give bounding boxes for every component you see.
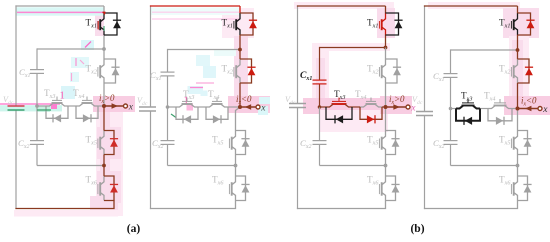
capacitor C42	[433, 138, 458, 150]
transistor T15 (IGBT with antiparallel diode)	[86, 131, 119, 155]
node inner-bottom junction	[384, 164, 388, 168]
wire junction-T6	[385, 166, 387, 177]
wire left rail lower	[424, 116, 426, 210]
wire output arrow	[518, 108, 539, 110]
wire left rail lower	[297, 108, 299, 210]
highlight glow	[509, 36, 529, 106]
highlight band	[51, 104, 57, 109]
wire node-T5	[385, 107, 387, 131]
highlight band	[201, 91, 208, 97]
arrowhead (current out of node)	[393, 104, 400, 110]
highlight glow	[97, 127, 121, 159]
highlight band	[196, 55, 210, 66]
wire T3 to T4	[480, 108, 488, 110]
highlight band	[258, 106, 268, 115]
highlight glow	[95, 13, 104, 36]
wire output arrow	[386, 106, 407, 108]
highlight glow	[316, 58, 325, 108]
capacitor C21	[150, 70, 175, 82]
highlight glow	[504, 96, 550, 115]
wire midpoint to T3	[37, 105, 46, 107]
node inner-top junction	[516, 48, 520, 52]
wire T3 to T4	[352, 106, 360, 108]
highlight glow	[222, 8, 254, 38]
highlight glow	[100, 112, 110, 208]
wire T1-junction	[239, 35, 241, 50]
highlight glow	[512, 40, 523, 106]
arrowhead (current into node)	[245, 104, 252, 110]
accent line	[103, 26, 105, 31]
wire T4 to output node	[382, 106, 386, 108]
transistor T26 (IGBT with antiparallel diode)	[212, 175, 250, 201]
wire T3 to T4	[68, 105, 76, 107]
highlight line	[190, 87, 203, 89]
wire T3 to T4	[198, 106, 206, 108]
highlight band	[17, 7, 105, 15]
wire T5-junction	[385, 155, 387, 166]
node inner-top junction	[238, 48, 242, 52]
wire T1-junction	[385, 35, 387, 48]
highlight band	[259, 97, 270, 104]
wire inner bottom	[168, 165, 236, 167]
node output x (circuit 4)	[516, 107, 520, 111]
terminal x (open circle)	[256, 105, 260, 109]
svg-text:x: x	[260, 103, 266, 113]
wire node-T5	[517, 109, 519, 131]
highlight line	[75, 58, 77, 66]
highlight glow	[228, 96, 270, 113]
transistor T42 (IGBT with antiparallel diode)	[499, 59, 533, 83]
wire inner-left lower	[450, 109, 452, 141]
wire bottom bus	[15, 201, 114, 209]
highlight line	[171, 114, 176, 118]
wire junction-T6	[235, 166, 237, 177]
wire inner-left lower	[167, 107, 169, 141]
wire midpoint to T3	[320, 106, 327, 108]
transistor T45 (IGBT with antiparallel diode)	[499, 131, 532, 155]
wire junction-T2	[517, 50, 519, 59]
wire left rail upper	[424, 5, 426, 111]
highlight band	[187, 104, 194, 111]
transistor T22 (IGBT with antiparallel diode)	[222, 59, 256, 83]
highlight line	[0, 103, 60, 105]
transistor T23 (bidirectional-switch IGBT with diode)	[176, 89, 198, 123]
DC source Vdc1 (split capacitor plates)	[3, 95, 25, 110]
svg-text:x: x	[128, 102, 134, 112]
transistor T12 (IGBT with antiparallel diode)	[86, 59, 120, 83]
highlight band	[214, 50, 236, 56]
highlight line	[85, 42, 91, 48]
terminal x (open circle)	[538, 107, 542, 111]
wire left rail lower	[15, 110, 17, 209]
wire top bus	[297, 5, 386, 7]
wire column top	[239, 6, 241, 13]
transistor T34 (bidirectional-switch IGBT with diode)	[355, 89, 382, 123]
wire inner-left lower	[36, 106, 38, 141]
wire T2-node	[385, 83, 387, 107]
wire junction-T2	[103, 49, 105, 59]
wire inner-left upper (flying cap branch)	[167, 49, 169, 72]
node flying-cap midpoint	[318, 105, 322, 109]
terminal x (open circle)	[124, 104, 128, 108]
transistor T35 (IGBT with antiparallel diode)	[367, 131, 400, 155]
wire T1-junction	[103, 35, 105, 49]
transistor T13 (bidirectional-switch IGBT with diode)	[44, 88, 68, 122]
wire midpoint to T3	[168, 106, 177, 108]
terminal x (open circle)	[406, 105, 410, 109]
transistor T41 (IGBT with antiparallel diode)	[499, 13, 535, 35]
highlight glow	[90, 196, 118, 214]
wire inner bottom	[320, 165, 386, 167]
wire inner bottom	[451, 165, 518, 167]
wire inner top	[320, 47, 386, 49]
wire T1-junction	[517, 35, 519, 50]
wire column top	[385, 6, 387, 13]
wire inner-left upper (flying cap branch)	[319, 47, 321, 80]
transistor T25 (IGBT with antiparallel diode)	[212, 131, 250, 155]
wire bottom bus	[150, 201, 236, 209]
wire left rail upper	[150, 5, 152, 107]
wire T2-node	[239, 83, 241, 107]
wire T5-junction	[517, 155, 519, 166]
highlight glow	[312, 43, 390, 51]
highlight glow	[294, 2, 394, 9]
wire bottom bus	[297, 201, 386, 209]
highlight band	[81, 40, 94, 50]
capacitor C12	[18, 138, 44, 150]
highlight band	[71, 57, 89, 68]
highlight band	[203, 66, 216, 78]
accent line	[103, 12, 105, 14]
highlight band	[37, 106, 50, 112]
arrowhead (current into node)	[525, 106, 532, 112]
wire T2-node	[103, 83, 105, 106]
node flying-cap midpoint	[449, 107, 453, 111]
highlight band	[188, 86, 204, 94]
wire junction-T2	[385, 48, 387, 60]
svg-text:x: x	[410, 103, 416, 113]
transistor T16 (IGBT with antiparallel diode)	[86, 175, 119, 201]
arrowhead (current out of node)	[112, 103, 119, 109]
wire junction-T2	[239, 50, 241, 60]
wire midpoint to T3	[451, 108, 457, 110]
wire junction-T6	[517, 166, 519, 177]
wire bottom bus	[424, 201, 518, 209]
node inner-top junction	[102, 47, 106, 51]
accent line	[37, 109, 51, 111]
highlight line	[152, 11, 239, 13]
wire left rail upper	[297, 5, 299, 103]
highlight band	[70, 72, 79, 82]
accent line	[97, 21, 99, 30]
highlight glow	[14, 210, 118, 217]
highlight glow	[320, 110, 388, 132]
accent line	[103, 11, 106, 13]
capacitor C11	[19, 67, 44, 79]
wire inner top	[451, 49, 518, 51]
capacitor C31	[300, 70, 327, 84]
capacitor C22	[152, 138, 175, 150]
highlight line	[196, 82, 214, 84]
svg-text:x: x	[542, 105, 548, 115]
node flying-cap midpoint	[35, 104, 39, 108]
node output x (circuit 1)	[102, 104, 106, 108]
wire inner-left upper (flying cap branch)	[450, 49, 452, 73]
node output x (circuit 2)	[238, 105, 242, 109]
wire junction-T6	[103, 166, 105, 177]
wire top bus	[150, 5, 240, 7]
wire T4 to output node	[228, 106, 240, 108]
wire T4 to output node	[98, 105, 104, 107]
highlight glow	[380, 96, 412, 114]
highlight line	[80, 60, 84, 64]
wire T2-node	[517, 83, 519, 109]
highlight glow	[312, 51, 329, 109]
highlight line	[152, 18, 239, 20]
wire inner bottom	[37, 165, 104, 167]
capacitor C32	[300, 138, 327, 150]
transistor T36 (IGBT with antiparallel diode)	[367, 175, 400, 201]
transistor T33 (bidirectional-switch IGBT with diode)	[326, 89, 352, 123]
wire output arrow	[240, 106, 256, 108]
wire left rail lower	[150, 111, 152, 209]
highlight glow	[234, 36, 248, 106]
wire node-T5	[103, 106, 105, 131]
wire top bus	[424, 5, 518, 7]
transistor T43 (bidirectional-switch IGBT with diode)	[456, 91, 480, 125]
wire T4 to output node	[512, 108, 518, 110]
wire column top	[517, 6, 519, 13]
wire inner-left upper (flying cap branch)	[36, 48, 38, 69]
transistor T44 (bidirectional-switch IGBT with diode)	[484, 91, 512, 125]
svg-text:(a): (a)	[127, 223, 141, 235]
highlight glow	[93, 96, 135, 112]
transistor T14 (bidirectional-switch IGBT with diode)	[73, 88, 98, 122]
highlight band	[151, 8, 239, 16]
svg-text:(b): (b)	[410, 223, 424, 235]
wire inner-left lower	[319, 107, 321, 141]
wire output arrow	[104, 105, 124, 107]
transistor T31 (IGBT with antiparallel diode)	[367, 13, 403, 35]
wire left rail upper	[15, 5, 17, 106]
DC source Vdc2 (split capacitor plates)	[137, 96, 156, 111]
wire node-T5	[236, 107, 241, 131]
highlight line	[71, 73, 73, 81]
node output x (circuit 3)	[384, 105, 388, 109]
highlight band	[0, 105, 62, 111]
highlight glow	[97, 171, 121, 203]
highlight glow	[96, 100, 123, 216]
capacitor C41	[433, 71, 458, 83]
node inner-bottom junction	[102, 164, 106, 168]
transistor T46 (IGBT with antiparallel diode)	[499, 175, 532, 201]
highlight band	[61, 86, 75, 99]
wire T5-junction	[103, 155, 105, 166]
highlight glow	[377, 8, 395, 38]
wire inner top	[37, 48, 104, 50]
node inner-bottom junction	[516, 164, 520, 168]
DC source Vdc3 (split capacitor plates)	[285, 95, 306, 108]
highlight line	[17, 11, 104, 13]
node inner-bottom junction	[234, 164, 238, 168]
node inner-top junction	[384, 46, 388, 50]
wire column top	[103, 6, 105, 13]
svg-text:1: 1	[60, 91, 65, 102]
highlight glow	[428, 2, 520, 9]
wire top bus	[15, 5, 104, 7]
wire T5-junction	[235, 155, 237, 166]
node flying-cap midpoint	[166, 105, 170, 109]
transistor T11 (IGBT with antiparallel diode)	[86, 13, 122, 35]
transistor T24 (bidirectional-switch IGBT with diode)	[206, 89, 228, 123]
highlight glow	[303, 98, 395, 114]
transistor T32 (IGBT with antiparallel diode)	[367, 59, 401, 83]
highlight glow	[503, 8, 539, 38]
DC source Vdc4 (split capacitor plates)	[412, 95, 433, 116]
wire inner top	[168, 49, 241, 51]
transistor T21 (IGBT with antiparallel diode)	[222, 13, 258, 35]
